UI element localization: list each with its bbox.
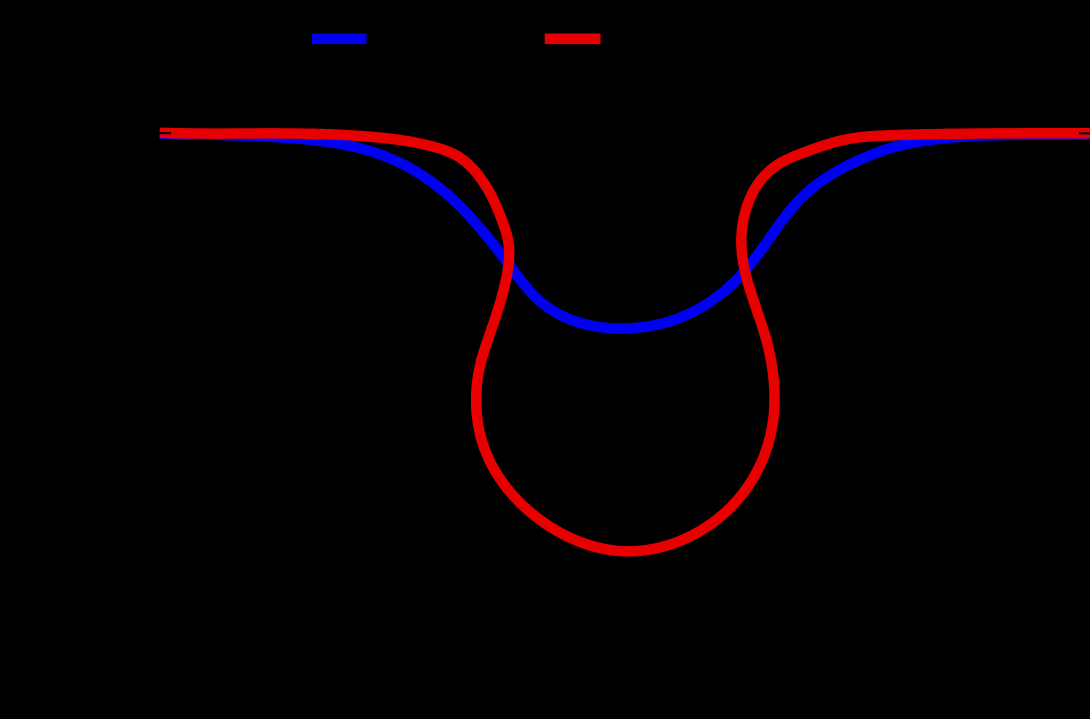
red curve: eclipsing binary light curve xyxy=(160,133,1090,552)
legend key blue xyxy=(312,34,367,45)
blue curve: planet transit light curve xyxy=(160,134,1090,328)
right axis tick over red line xyxy=(1079,132,1090,134)
left axis tick over red line xyxy=(160,132,172,134)
legend key red xyxy=(545,34,601,45)
